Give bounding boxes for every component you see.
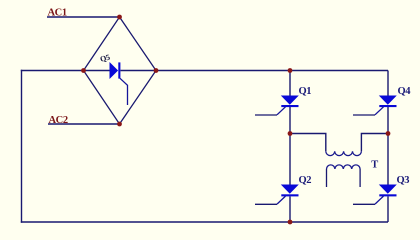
wire diode anode segment xyxy=(84,70,110,72)
wire bottom rail xyxy=(21,221,388,223)
junction top vertex xyxy=(117,15,122,20)
wire mid junction to Q3 anode xyxy=(387,134,389,186)
wire right column upper (top rail to Q4) xyxy=(387,71,389,97)
svg-text:Q1: Q1 xyxy=(299,86,312,97)
junction right vertex xyxy=(154,68,159,73)
transformer T secondary winding xyxy=(327,165,361,169)
thyristor Q1 xyxy=(255,96,299,115)
wire diode cathode segment xyxy=(121,70,157,72)
transformer T primary winding xyxy=(326,151,362,155)
wire AC1 lead xyxy=(47,16,120,18)
wire Q2 cathode to bottom rail xyxy=(289,197,291,223)
wire diamond bridge loop xyxy=(84,17,157,124)
wire mid junction to Q2 anode xyxy=(289,134,291,186)
thyristor Q4 xyxy=(353,96,397,115)
wire Q1 anode drop xyxy=(289,71,291,97)
wire AC2 lead xyxy=(48,123,120,125)
svg-text:T: T xyxy=(371,160,378,171)
junction bottom left xyxy=(288,220,293,225)
svg-text:Q4: Q4 xyxy=(398,86,412,97)
wire mid line left (junction to primary) xyxy=(290,134,326,152)
junction mid left xyxy=(288,131,293,136)
wire left branch: left vertex to left rail xyxy=(21,70,84,72)
junction Q1 top xyxy=(288,68,293,73)
thyristor Q2 xyxy=(255,185,299,204)
wire Q4 cathode to mid junction xyxy=(387,107,389,134)
thyristor Q3 xyxy=(353,185,397,204)
wire primary right lead xyxy=(361,134,388,152)
junction left vertex xyxy=(81,68,86,73)
junction bottom vertex xyxy=(117,122,122,127)
wire secondary right stub xyxy=(359,169,361,187)
svg-text:Q2: Q2 xyxy=(299,175,312,186)
junction mid right xyxy=(386,131,391,136)
wire left vertical rail xyxy=(21,70,23,223)
wire top rail xyxy=(156,70,388,72)
wire secondary left stub xyxy=(326,169,328,187)
thyristor Q5 xyxy=(110,62,128,105)
wire Q1 cathode to mid junction xyxy=(289,107,291,134)
svg-text:Q3: Q3 xyxy=(397,175,410,186)
wire Q3 cathode to bottom rail xyxy=(387,197,389,223)
